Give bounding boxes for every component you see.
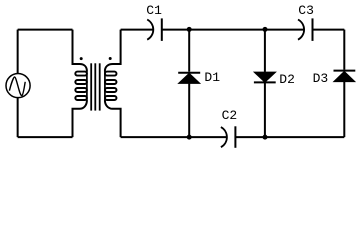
node B junction dot (top of D2) [263, 27, 268, 32]
label D2 [279, 73, 295, 86]
transformer T1 secondary entry wire [105, 30, 121, 72]
wire top: secondary to C1 [121, 29, 153, 31]
capacitor C3 curved plate [298, 20, 304, 40]
transformer T1 primary loop 3 [75, 88, 87, 92]
label C3 [298, 4, 314, 17]
wire D2 branch below [264, 82, 266, 137]
wire D1 branch below [188, 84, 190, 138]
transformer T1 secondary loop 4 [105, 96, 117, 100]
label D3 [313, 72, 329, 85]
wire left loop left vertical above source [17, 30, 19, 74]
wire left loop top [18, 29, 73, 31]
AC source sine wave [9, 77, 25, 96]
transformer T1 primary loop 4 [75, 96, 87, 100]
wire bottom: node C to C2 [189, 136, 226, 138]
wire D1 branch above [188, 30, 190, 72]
label D1 [204, 71, 220, 84]
label C2 [222, 109, 238, 122]
transformer T1 primary crossing line [86, 71, 88, 101]
transformer T1 core line 3 [99, 63, 101, 110]
wire left loop bottom [18, 136, 73, 138]
wire top: C1 to node A [162, 29, 189, 31]
AC source V1 circle [6, 74, 30, 98]
wire top: node B to C3 [265, 29, 304, 31]
wire bottom: node D to D3 [265, 136, 344, 138]
transformer T1 primary loop 2 [75, 80, 87, 84]
transformer T1 secondary loop 1 [105, 72, 117, 76]
diode D3 triangle [334, 72, 355, 82]
capacitor C3 straight plate [312, 18, 314, 41]
wire D3 branch below [343, 82, 345, 137]
transformer T1 primary entry wire [73, 30, 87, 72]
diode D2 cathode bar [254, 81, 276, 83]
transformer T1 primary polarity dot [80, 57, 83, 60]
transformer T1 primary loop 1 [75, 72, 87, 76]
node D junction dot (bottom of D2) [263, 135, 268, 140]
capacitor C1 curved plate [147, 20, 153, 40]
transformer T1 secondary loop 3 [105, 88, 117, 92]
diode D3 cathode bar [334, 70, 356, 72]
transformer T1 primary exit wire [73, 100, 87, 137]
transformer T1 secondary exit wire [105, 100, 121, 137]
capacitor C2 curved plate [221, 127, 227, 147]
diode D1 triangle [179, 74, 200, 84]
wire top: C3 to right corner [313, 29, 345, 31]
transformer T1 secondary polarity dot [109, 57, 112, 60]
wire right vertical above D3 [343, 30, 345, 70]
transformer T1 secondary loop 2 [105, 80, 117, 84]
label C1 [146, 4, 162, 17]
wire top: node A to node B [189, 29, 265, 31]
node A junction dot (top of D1) [187, 27, 192, 32]
wire left loop left vertical below source [17, 98, 19, 138]
capacitor C1 straight plate [161, 18, 163, 41]
diode D2 triangle [254, 72, 275, 82]
wire bottom: C2 to node D [235, 136, 265, 138]
wire D2 branch above [264, 30, 266, 72]
node C junction dot (bottom of D1) [187, 135, 192, 140]
transformer T1 secondary crossing line [104, 71, 106, 101]
capacitor C2 straight plate [234, 126, 236, 148]
diode D1 cathode bar [178, 72, 200, 74]
transformer T1 core line 2 [94, 63, 96, 110]
wire bottom: secondary to node C [121, 136, 190, 138]
transformer T1 core line 1 [90, 63, 92, 110]
